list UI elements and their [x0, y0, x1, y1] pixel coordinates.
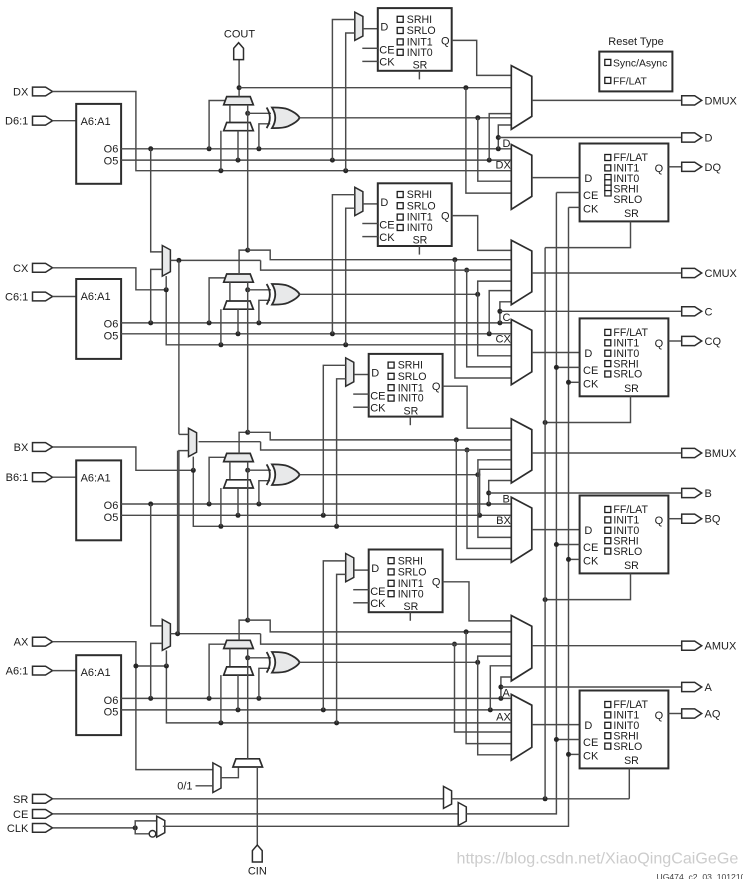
input pin CX — [33, 263, 53, 272]
wire F8MUX output — [199, 441, 261, 443]
svg-text:Q: Q — [655, 163, 664, 175]
wire F7/F8 tap to FFMUX B — [467, 450, 511, 548]
junction F7/F8 tap A — [452, 642, 457, 647]
wire latch mux out D — [363, 28, 378, 30]
wire DOUTMUX output — [532, 99, 682, 101]
wire XOR tap to FFMUX A — [478, 662, 512, 755]
wire CX input — [53, 268, 167, 290]
wire CLK rail — [53, 827, 136, 829]
svg-text:CE: CE — [370, 586, 385, 598]
wire O6 hook A — [501, 677, 511, 698]
wire XOR tap to FFMUX B — [478, 475, 511, 538]
svg-text:CK: CK — [370, 403, 386, 415]
C5FF latch box — [378, 183, 452, 246]
svg-text:INIT0: INIT0 — [407, 47, 433, 59]
svg-text:A6:A1: A6:A1 — [81, 667, 111, 679]
wire A6:1 to LUT — [53, 670, 77, 672]
wire DI mux to O5 A — [237, 675, 239, 710]
svg-text:A6:A1: A6:A1 — [81, 116, 111, 128]
svg-text:B: B — [705, 488, 712, 500]
svg-text:FF/LAT: FF/LAT — [613, 76, 648, 87]
XOR gate D — [272, 107, 300, 128]
wire FF CK D — [569, 206, 580, 208]
wire DI mux to X B — [220, 488, 222, 526]
wire O6 C to F7BMUX — [151, 269, 163, 323]
A5FF latch box — [369, 550, 443, 613]
wire B6:1 to LUT — [53, 476, 77, 478]
wire XOR top input D — [248, 112, 271, 114]
wire 0/1 stub — [196, 785, 213, 787]
output mux DOUTMUX — [511, 66, 532, 130]
svg-text:O5: O5 — [104, 707, 119, 719]
flip-flop AFF (FF/LAT) — [580, 691, 669, 769]
input pin A6:1 — [33, 666, 53, 675]
wire AFFMUX output to FF — [532, 724, 580, 726]
wire latch mux in X C — [346, 208, 355, 345]
wire FF CE A — [556, 739, 579, 741]
svg-text:CE: CE — [583, 190, 598, 202]
junction O6 to output D — [496, 135, 501, 140]
wire O6 hook B — [489, 481, 512, 505]
svg-text:D: D — [371, 368, 379, 380]
wire O6 A — [121, 697, 511, 699]
inverter bubble — [149, 831, 156, 838]
output mux AOUTMUX — [511, 616, 532, 681]
latch SR stub B — [409, 417, 411, 426]
svg-text:O5: O5 — [104, 330, 119, 342]
carry MUXCY D — [224, 97, 254, 105]
svg-text:AMUX: AMUX — [705, 641, 737, 653]
wire XOR bottom input D (O6) — [259, 124, 270, 149]
wire latch mux in X B — [337, 379, 346, 527]
junction CK riser taps — [566, 380, 571, 385]
wire C6:1 to LUT — [53, 296, 77, 298]
wire CLK rail right — [163, 207, 569, 826]
svg-text:D: D — [584, 173, 592, 185]
flip-flop CFF (FF/LAT) — [580, 318, 669, 396]
junction X-line taps A — [218, 720, 223, 725]
svg-text:SR: SR — [624, 560, 639, 572]
wire latch Q A — [443, 582, 512, 621]
wire latch mux out A — [354, 569, 369, 571]
svg-text:CK: CK — [370, 598, 386, 610]
LUT D (A6:A1) — [76, 104, 121, 184]
wire O5 D — [121, 159, 511, 161]
latch CK stub D — [362, 60, 378, 62]
latch CE stub A — [353, 589, 369, 591]
wire FF CK C — [569, 381, 580, 383]
junction CE riser taps — [554, 365, 559, 370]
pin CIN — [252, 845, 262, 862]
svg-text:INIT0: INIT0 — [398, 393, 424, 405]
wire XOR bottom input A (O6) — [259, 668, 270, 698]
latch CK stub A — [353, 602, 369, 604]
svg-text:D: D — [584, 720, 592, 732]
wire latch mux in O5 C — [332, 195, 354, 334]
svg-text:https://blog.csdn.net/XiaoQing: https://blog.csdn.net/XiaoQingCaiGeGe — [457, 850, 739, 868]
svg-text:O6: O6 — [104, 695, 119, 707]
svg-text:A6:A1: A6:A1 — [81, 291, 111, 303]
wire carry branch A — [248, 620, 512, 632]
wire F7A out step down — [261, 634, 512, 644]
wire F8 out step down — [261, 442, 512, 450]
FF input mux BFFMUX — [511, 497, 532, 562]
mux CE — [458, 803, 466, 826]
carry DI mux C — [224, 301, 254, 309]
wire O5 hook D — [489, 114, 511, 161]
wire XOR tap to FFMUX C — [478, 294, 512, 356]
junction XOR tap A — [475, 660, 480, 665]
riser to slice above — [247, 105, 249, 250]
wire FF SR B — [545, 573, 630, 599]
svg-text:SR: SR — [413, 60, 428, 72]
mux F7AMUX (between B and A) — [162, 619, 170, 650]
FF input mux CFFMUX — [511, 320, 532, 385]
wire C output line — [500, 310, 682, 312]
wire XOR bottom input C (O6) — [259, 300, 270, 323]
wire F7A to F8MUX rail — [177, 451, 179, 634]
riser to slice above — [247, 462, 249, 620]
svg-text:SRHI: SRHI — [398, 555, 423, 567]
wire O5 hook A — [490, 666, 511, 710]
svg-text:BQ: BQ — [705, 514, 721, 526]
wire DFFMUX output to FF — [532, 177, 580, 179]
output pin BMUX — [682, 448, 702, 457]
svg-text:BMUX: BMUX — [705, 448, 737, 460]
svg-text:SRLO: SRLO — [613, 194, 642, 206]
svg-text:AQ: AQ — [705, 709, 721, 721]
svg-text:SR: SR — [413, 235, 428, 247]
pin COUT — [234, 43, 244, 60]
latch CE stub C — [362, 223, 378, 225]
junction F7BMUX out — [176, 258, 181, 263]
wire 0/1 mux out — [221, 767, 238, 777]
XOR gate A — [272, 652, 300, 673]
junction XOR carry tap B — [245, 468, 250, 473]
mux CLK inversion — [157, 816, 165, 837]
junction AX select — [164, 664, 169, 669]
svg-text:Q: Q — [432, 577, 441, 589]
wire XOR hook to OUTMUX A — [478, 656, 512, 662]
output pin DQ — [682, 162, 702, 171]
svg-text:Q: Q — [441, 35, 450, 47]
wire FF Q to pin DQ — [668, 166, 681, 168]
wire COUTMUX output — [532, 272, 682, 274]
riser to slice above — [247, 282, 249, 432]
wire DI mux to O5 B — [237, 488, 239, 515]
carry MUXCY B select from O6 — [209, 457, 225, 504]
svg-text:A: A — [705, 682, 713, 694]
wire SR riser — [544, 248, 546, 799]
svg-text:A: A — [503, 688, 511, 700]
junction carry out A — [245, 618, 250, 623]
wire O6 hook D — [498, 125, 511, 149]
output mux COUTMUX — [511, 240, 532, 305]
mux SR — [444, 786, 452, 808]
junction CLK split — [133, 825, 138, 830]
junction O5 taps D — [236, 158, 241, 163]
svg-text:CX: CX — [13, 263, 29, 275]
wire D output line — [498, 137, 681, 139]
LUT C (A6:A1) — [76, 279, 121, 359]
wire CE rail right — [466, 193, 556, 814]
wire F7AMUX select — [165, 650, 167, 666]
latch CE stub D — [362, 47, 378, 49]
input pin CE — [33, 810, 53, 819]
wire F7BMUX select — [165, 276, 167, 290]
output mux BOUTMUX — [511, 419, 532, 483]
wire latch mux out B — [354, 374, 369, 376]
mux F8MUX (between C and B) — [189, 428, 197, 456]
flip-flop DFF (FF/LAT) — [580, 144, 669, 222]
svg-text:SRLO: SRLO — [398, 567, 427, 579]
carry MUXCY C — [224, 274, 254, 282]
wire FF CE D — [556, 192, 579, 194]
svg-text:O6: O6 — [104, 500, 119, 512]
latch input mux C5FFMUX — [355, 187, 363, 215]
carry out riser A — [239, 620, 248, 640]
svg-text:AX: AX — [14, 637, 29, 649]
wire F8MUX in1 — [179, 433, 189, 435]
svg-text:CE: CE — [13, 809, 28, 821]
wire AX input — [53, 642, 167, 666]
wire FF CK A — [569, 753, 580, 755]
wire carry tap to FFMUX D — [466, 88, 511, 193]
junction F7/F8 tap B — [465, 448, 470, 453]
wire CIN riser — [256, 767, 258, 845]
carry out riser C — [239, 250, 248, 274]
svg-text:SRHI: SRHI — [407, 14, 432, 26]
junction XOR tap D — [475, 115, 480, 120]
latch SR stub A — [409, 612, 411, 621]
junction O6 taps D — [148, 146, 153, 151]
svg-text:D: D — [503, 138, 511, 150]
output pin DMUX — [682, 96, 702, 105]
svg-text:A6:A1: A6:A1 — [81, 472, 111, 484]
input pin AX — [33, 637, 53, 646]
input pin DX — [33, 87, 53, 96]
svg-text:D6:1: D6:1 — [5, 116, 28, 128]
wire DX input — [53, 92, 512, 171]
wire latch mux in O5 A — [323, 561, 345, 710]
input pin C6:1 — [33, 292, 53, 301]
latch CE stub B — [353, 393, 369, 395]
svg-text:DX: DX — [496, 160, 512, 172]
svg-text:INIT0: INIT0 — [398, 588, 424, 600]
wire DI mux to X D — [220, 131, 222, 171]
svg-text:SRLO: SRLO — [407, 200, 436, 212]
junction XOR carry tap D — [245, 111, 250, 116]
wire latch Q B — [443, 386, 512, 428]
carry MUXCY C select from O6 — [209, 278, 225, 323]
junction O6 taps C — [148, 320, 153, 325]
wire FF SR D — [545, 221, 630, 247]
svg-text:BX: BX — [496, 515, 511, 527]
carry DI wire C — [229, 282, 231, 301]
latch CK stub B — [353, 406, 369, 408]
output pin BQ — [682, 514, 702, 523]
input pin SR — [33, 794, 53, 803]
wire F7B out step down — [261, 260, 512, 270]
wire AX rail to CYINIT — [136, 666, 213, 770]
svg-text:SR: SR — [624, 755, 639, 767]
svg-text:CIN: CIN — [248, 866, 267, 878]
wire CYINIT riser to MUXCY A — [247, 649, 249, 759]
wire SR to AFF — [628, 768, 630, 798]
carry out riser B — [239, 432, 248, 453]
svg-text:AX: AX — [496, 712, 511, 724]
junction carry tap A — [464, 629, 469, 634]
wire O6 D to F7BMUX — [151, 149, 163, 252]
legend FF/LAT — [605, 77, 611, 83]
wire XOR hook to OUTMUX B — [478, 460, 511, 475]
svg-text:UG474_c2_03_101210: UG474_c2_03_101210 — [657, 872, 743, 879]
junction CX select — [164, 287, 169, 292]
svg-text:CLK: CLK — [7, 823, 29, 835]
wire B output line — [489, 492, 682, 494]
svg-text:CE: CE — [370, 390, 385, 402]
output pin A — [682, 682, 702, 691]
svg-text:CE: CE — [583, 365, 598, 377]
latch input mux A5FFMUX — [346, 554, 354, 582]
svg-text:A6:1: A6:1 — [6, 666, 29, 678]
svg-text:DQ: DQ — [705, 162, 722, 174]
carry MUXCY A select from O6 — [209, 644, 225, 698]
junction O6 to output A — [498, 685, 503, 690]
wire FF Q to pin AQ — [668, 713, 681, 715]
svg-text:C: C — [503, 312, 511, 324]
output pin AQ — [682, 709, 702, 718]
latch SR stub D — [418, 71, 420, 80]
wire DI mux to O5 D — [237, 131, 239, 160]
svg-text:0/1: 0/1 — [177, 781, 192, 793]
wire BX jog down — [193, 470, 511, 526]
carry DI wire B — [229, 462, 231, 480]
carry DI wire A — [229, 649, 231, 667]
svg-text:O5: O5 — [104, 155, 119, 167]
svg-text:DMUX: DMUX — [705, 95, 738, 107]
svg-text:O5: O5 — [104, 512, 119, 524]
wire DI mux to X C — [220, 309, 222, 345]
carry MUXCY A — [224, 640, 254, 648]
junction O6 taps A — [148, 696, 153, 701]
XOR gate B — [272, 464, 300, 485]
wire carry line D — [239, 87, 511, 89]
svg-text:COUT: COUT — [224, 29, 255, 41]
wire latch Q D — [452, 40, 512, 75]
junction X-line taps C — [218, 342, 223, 347]
wire O5 C — [121, 333, 511, 335]
wire F7B to F8MUX rail — [178, 260, 180, 434]
wire O6 C — [121, 322, 511, 324]
wire latch mux in O5 D — [332, 20, 354, 161]
flip-flop BFF (FF/LAT) — [580, 496, 669, 574]
wire XOR output A — [300, 661, 478, 663]
wire XOR output D — [300, 117, 512, 119]
wire AX jog down — [166, 666, 511, 723]
svg-text:CK: CK — [583, 751, 599, 763]
carry MUXCY B — [224, 453, 254, 461]
wire SR rail right — [452, 798, 630, 800]
carry DI mux D — [224, 123, 254, 131]
legend Sync/Async — [605, 59, 611, 65]
latch input mux D5FFMUX — [355, 12, 363, 40]
input pin D6:1 — [33, 116, 53, 125]
svg-text:C: C — [705, 306, 713, 318]
wire XOR top input B — [248, 469, 271, 471]
wire CFFMUX output to FF — [532, 352, 580, 354]
wire O5 B — [121, 514, 511, 516]
svg-text:D: D — [584, 525, 592, 537]
wire CLK inverted branch — [135, 828, 149, 834]
svg-text:SR: SR — [404, 405, 419, 417]
latch SR stub C — [418, 246, 420, 255]
wire FF CK B — [569, 558, 580, 560]
wire O6 B to F7AMUX — [151, 504, 163, 626]
junction O6 to output C — [497, 309, 502, 314]
wire F8MUX select — [192, 457, 194, 471]
junction carry tap C — [452, 257, 457, 262]
input pin B6:1 — [33, 473, 53, 482]
junction carry out D — [237, 85, 242, 90]
svg-text:CE: CE — [379, 220, 394, 232]
wire latch mux in X A — [337, 574, 346, 723]
svg-text:SRHI: SRHI — [398, 360, 423, 372]
svg-text:BX: BX — [14, 442, 29, 454]
svg-text:SRLO: SRLO — [398, 371, 427, 383]
svg-text:D: D — [584, 348, 592, 360]
svg-text:SRLO: SRLO — [613, 741, 642, 753]
junction carry tap B — [454, 437, 459, 442]
svg-text:SRLO: SRLO — [407, 25, 436, 37]
wire carry tap to FFMUX B — [456, 440, 511, 560]
svg-text:SRLO: SRLO — [613, 546, 642, 558]
carry chain COUT riser — [238, 60, 240, 97]
wire CX jog down — [166, 290, 511, 345]
junction X-line taps B — [218, 524, 223, 529]
D5FF latch box — [378, 8, 452, 71]
input pin BX — [33, 443, 53, 452]
wire FF Q to pin BQ — [668, 518, 681, 520]
mux F7BMUX (between D and C) — [162, 246, 170, 277]
wire FF CE B — [556, 544, 579, 546]
wire O5 hook C — [489, 291, 511, 334]
svg-text:CK: CK — [583, 204, 599, 216]
junction BX select — [191, 468, 196, 473]
svg-text:Q: Q — [655, 710, 664, 722]
carry DI wire D — [229, 105, 231, 123]
wire XOR bottom input B (O6) — [259, 481, 270, 504]
junction carry out C — [245, 248, 250, 253]
svg-text:CK: CK — [379, 57, 395, 69]
wire FF SR C — [545, 396, 630, 422]
svg-text:CE: CE — [583, 542, 598, 554]
junction X-line taps D — [218, 168, 223, 173]
wire SR rail — [53, 798, 444, 800]
wire XOR tap to FFMUX D — [478, 118, 512, 181]
junction O5 taps C — [236, 331, 241, 336]
svg-text:SR: SR — [624, 208, 639, 220]
svg-text:SR: SR — [404, 601, 419, 613]
wire O6 B — [121, 503, 511, 505]
svg-text:CK: CK — [583, 379, 599, 391]
wire O5 hook B — [480, 469, 512, 515]
wire XOR top input C — [248, 289, 271, 291]
junction F7AMUX out — [175, 631, 180, 636]
svg-text:D: D — [380, 197, 388, 209]
wire DI mux to O5 C — [237, 309, 239, 334]
output pin CMUX — [682, 268, 702, 277]
